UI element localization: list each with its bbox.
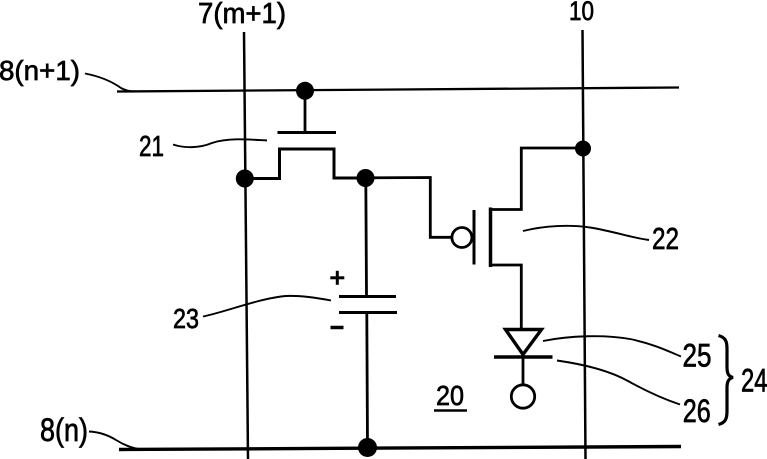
label 20 underlined	[434, 380, 467, 411]
wire diode to terminal circle	[522, 357, 525, 385]
transistor Q21 gate stem	[304, 91, 307, 132]
leader from 8(n) label	[89, 432, 142, 450]
leader from 25 label to diode	[543, 336, 681, 356]
capacitor C23 bottom plate	[339, 311, 397, 314]
wire storage node to gate of Q22	[366, 178, 452, 238]
diode D25 triangle	[506, 330, 542, 355]
transistor Q22 channel bar	[489, 208, 493, 268]
transistor Q21 channel and source/drain wires	[245, 149, 366, 179]
svg-text:7(m+1): 7(m+1)	[198, 0, 286, 30]
minus polarity mark	[331, 326, 344, 330]
wire power line 10 vertical	[583, 30, 586, 459]
node dot capacitor bottom on 8(n)	[358, 438, 377, 457]
svg-text:20: 20	[436, 380, 464, 411]
terminal circle 26	[511, 385, 534, 408]
svg-text:22: 22	[652, 221, 679, 256]
svg-text:8(n+1): 8(n+1)	[0, 55, 80, 86]
capacitor C23 bottom wire	[365, 314, 369, 448]
node dot drain of Q22 on power line 10	[575, 141, 591, 157]
leader from 23 label	[203, 296, 331, 317]
capacitor C23 top wire	[364, 178, 368, 296]
wire drain of Q22 to power line 10	[491, 148, 584, 210]
wire data line 7(m+1) vertical	[244, 32, 248, 459]
capacitor C23 top plate	[339, 295, 396, 298]
diode D25 cathode bar	[494, 355, 553, 359]
svg-text:25: 25	[683, 338, 712, 374]
wire scan line 8(n+1) horizontal	[117, 88, 679, 92]
plus polarity mark	[330, 271, 344, 285]
node dot drain of Q21 / storage node	[357, 169, 375, 187]
leader from 22 label	[523, 226, 649, 240]
transistor Q21 gate bar	[278, 131, 337, 134]
leader from 8(n+1) label	[85, 74, 141, 92]
svg-text:23: 23	[173, 303, 199, 334]
svg-text:26: 26	[683, 393, 711, 429]
node dot gate of transistor 21 on 8(n+1)	[296, 82, 314, 100]
transistor Q22 gate bubble	[452, 228, 472, 248]
wire scan line 8(n) horizontal	[119, 447, 681, 450]
wire source of Q22 down to diode	[491, 265, 522, 329]
node dot source of Q21 on data line	[236, 170, 254, 188]
svg-text:24: 24	[741, 363, 767, 399]
svg-text:8(n): 8(n)	[40, 412, 88, 448]
svg-text:10: 10	[569, 0, 594, 26]
leader from 26 label to cathode	[557, 361, 680, 405]
transistor Q22 gate bar	[473, 210, 476, 265]
brace grouping 24	[719, 336, 734, 425]
leader from 21 label	[173, 139, 267, 147]
svg-text:21: 21	[139, 131, 164, 163]
